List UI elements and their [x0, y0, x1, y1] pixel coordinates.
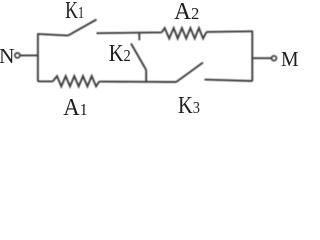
wire K2 drop to bottom — [145, 70, 147, 82]
wire bottom-left segment — [38, 80, 53, 82]
label N — [0, 44, 15, 68]
label K3 — [178, 92, 200, 119]
resistor A2 — [162, 28, 207, 39]
node right junction vertical wire — [251, 31, 253, 82]
svg-text:K3: K3 — [178, 92, 200, 119]
svg-text:K2: K2 — [109, 39, 131, 66]
switch K2 blade — [131, 44, 146, 71]
wire M stub — [252, 57, 271, 59]
label A1 — [63, 95, 88, 122]
svg-text:A2: A2 — [174, 0, 199, 25]
wire N stub — [20, 54, 38, 56]
node left junction vertical wire — [37, 34, 39, 82]
switch K3 blade — [176, 63, 203, 83]
svg-text:M: M — [281, 48, 299, 71]
switch K1 blade — [68, 20, 97, 36]
wire bottom-middle segment — [99, 81, 176, 83]
label M — [281, 48, 299, 71]
terminal N circle — [15, 53, 20, 58]
label K1 — [65, 0, 84, 24]
label A2 — [174, 0, 199, 25]
svg-text:A1: A1 — [63, 95, 88, 122]
terminal M circle — [272, 56, 277, 61]
label K2 — [109, 39, 131, 66]
wire top-left segment — [37, 34, 68, 36]
switch K2 contact tick — [138, 33, 140, 41]
svg-text:K1: K1 — [65, 0, 84, 24]
resistor A1 — [53, 76, 100, 86]
svg-text:N: N — [0, 44, 15, 68]
wire bottom-right segment — [205, 80, 253, 81]
wire top to right corner — [207, 30, 253, 33]
wire top-right segment — [97, 31, 162, 34]
